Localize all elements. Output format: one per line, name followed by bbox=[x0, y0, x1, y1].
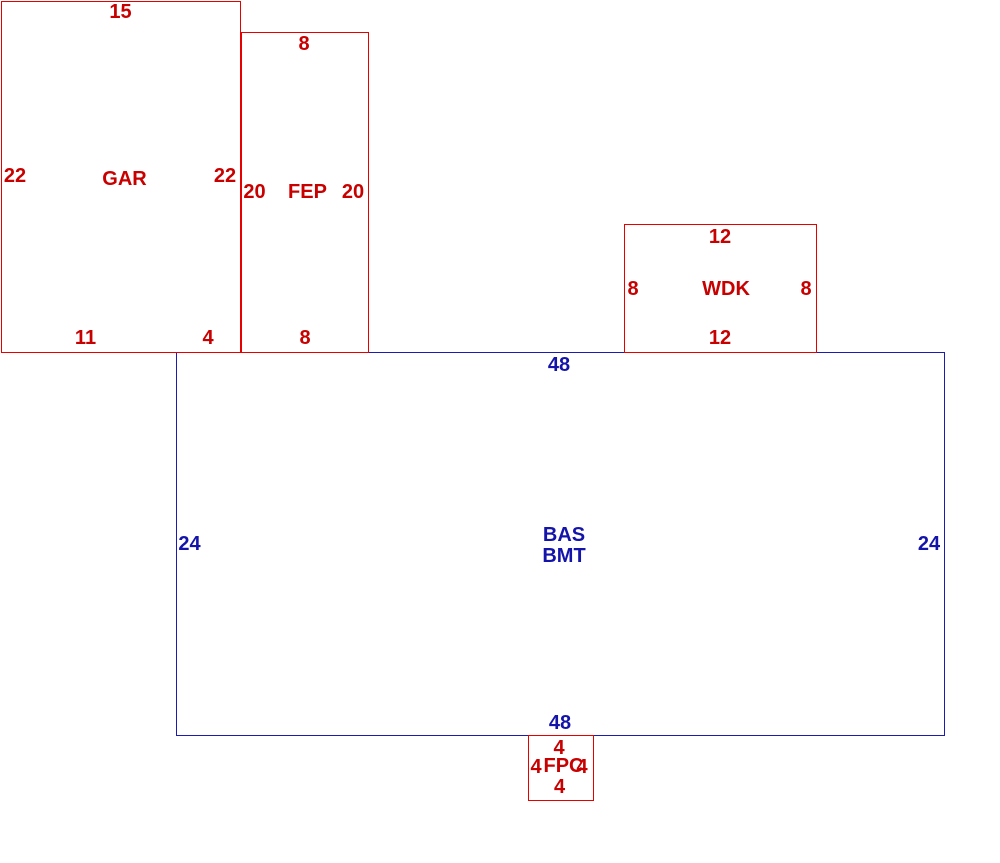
dimension 48 (BAS bottom) bbox=[549, 713, 571, 733]
dimension 20 (FEP left) bbox=[243, 182, 265, 202]
dimension 22 (GAR left) bbox=[4, 166, 26, 186]
dimension 24 (BAS left) bbox=[178, 534, 200, 554]
label BAS BMT bbox=[542, 525, 585, 567]
dimension 4 (FPC left) bbox=[530, 757, 541, 777]
dimension 4 (FPC top) bbox=[553, 738, 564, 758]
label FEP bbox=[288, 182, 327, 202]
dimension 8 (FEP top) bbox=[298, 34, 309, 54]
area FEP outline bbox=[241, 32, 369, 353]
dimension 11 (GAR bottom left segment) bbox=[75, 328, 96, 348]
dimension 22 (GAR right) bbox=[214, 166, 236, 186]
dimension 24 (BAS right) bbox=[918, 534, 940, 554]
dimension 12 (WDK bottom) bbox=[709, 328, 731, 348]
area GAR outline bbox=[1, 1, 241, 353]
dimension 15 (GAR top) bbox=[109, 2, 131, 22]
dimension 12 (WDK top) bbox=[709, 227, 731, 247]
label FPC bbox=[544, 756, 584, 776]
dimension 4 (FPC bottom) bbox=[554, 777, 565, 797]
dimension 4 (GAR bottom right segment) bbox=[202, 328, 213, 348]
dimension 8 (WDK right) bbox=[800, 279, 811, 299]
area WDK outline bbox=[624, 224, 817, 353]
dimension 20 (FEP right) bbox=[342, 182, 364, 202]
label WDK bbox=[702, 279, 750, 299]
label GAR bbox=[102, 169, 146, 189]
area BAS/BMT outline (blue) bbox=[176, 352, 945, 736]
area FPC outline bbox=[528, 735, 594, 801]
dimension 8 (FEP bottom) bbox=[299, 328, 310, 348]
dimension 4 (FPC right) bbox=[576, 757, 587, 777]
dimension 48 (BAS top) bbox=[548, 355, 570, 375]
dimension 8 (WDK left) bbox=[627, 279, 638, 299]
